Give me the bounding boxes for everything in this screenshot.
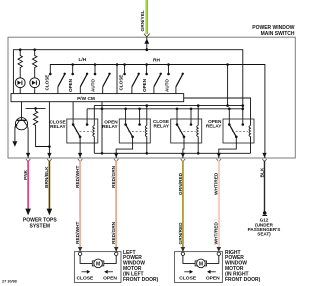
svg-text:RH: RH [153, 58, 160, 64]
svg-text:RED/GRN: RED/GRN [111, 221, 117, 244]
svg-text:RED/GRN: RED/GRN [111, 165, 117, 188]
svg-text:BLK: BLK [259, 167, 265, 177]
svg-text:RELAY: RELAY [206, 123, 222, 128]
svg-text:MAIN SWITCH: MAIN SWITCH [261, 31, 295, 37]
svg-text:RED/WHT: RED/WHT [75, 166, 81, 188]
svg-text:SEAT): SEAT) [257, 232, 271, 237]
svg-text:CLOSE: CLOSE [45, 75, 50, 91]
svg-text:GRN/YEL: GRN/YEL [140, 10, 146, 31]
svg-text:AUTO: AUTO [90, 79, 95, 92]
svg-text:M: M [96, 261, 100, 267]
svg-text:CLOSE: CLOSE [76, 275, 94, 281]
svg-text:27 10/98: 27 10/98 [2, 280, 17, 284]
svg-text:POWER WINDOW: POWER WINDOW [252, 25, 294, 31]
svg-text:RELAY: RELAY [50, 124, 66, 129]
svg-text:AUTO: AUTO [165, 79, 170, 92]
svg-text:BRN/BLK: BRN/BLK [44, 166, 50, 188]
svg-text:OPEN: OPEN [206, 275, 220, 281]
svg-text:WHT/RED: WHT/RED [214, 222, 220, 245]
svg-text:FRONT DOOR): FRONT DOOR) [123, 277, 159, 283]
svg-text:M: M [199, 261, 203, 267]
svg-text:CLOSE: CLOSE [119, 75, 124, 91]
svg-text:L/H: L/H [79, 57, 87, 63]
svg-text:CLOSE: CLOSE [179, 275, 197, 281]
svg-text:OPEN: OPEN [68, 78, 73, 92]
svg-text:POWER TOPS: POWER TOPS [23, 217, 57, 223]
svg-text:SYSTEM: SYSTEM [30, 224, 51, 230]
svg-text:PNK: PNK [23, 169, 29, 180]
svg-text:WHT/RED: WHT/RED [214, 172, 220, 195]
svg-text:FRONT DOOR): FRONT DOOR) [225, 277, 261, 283]
svg-text:RELAY: RELAY [102, 124, 118, 129]
svg-text:GRN/RED: GRN/RED [178, 172, 184, 195]
svg-text:P/W CM: P/W CM [77, 96, 95, 102]
svg-text:RED/WHT: RED/WHT [75, 222, 81, 244]
svg-text:OPEN: OPEN [103, 275, 117, 281]
svg-text:RELAY: RELAY [154, 123, 170, 128]
svg-text:OPEN: OPEN [142, 78, 147, 92]
svg-text:GRN/RED: GRN/RED [178, 222, 184, 245]
